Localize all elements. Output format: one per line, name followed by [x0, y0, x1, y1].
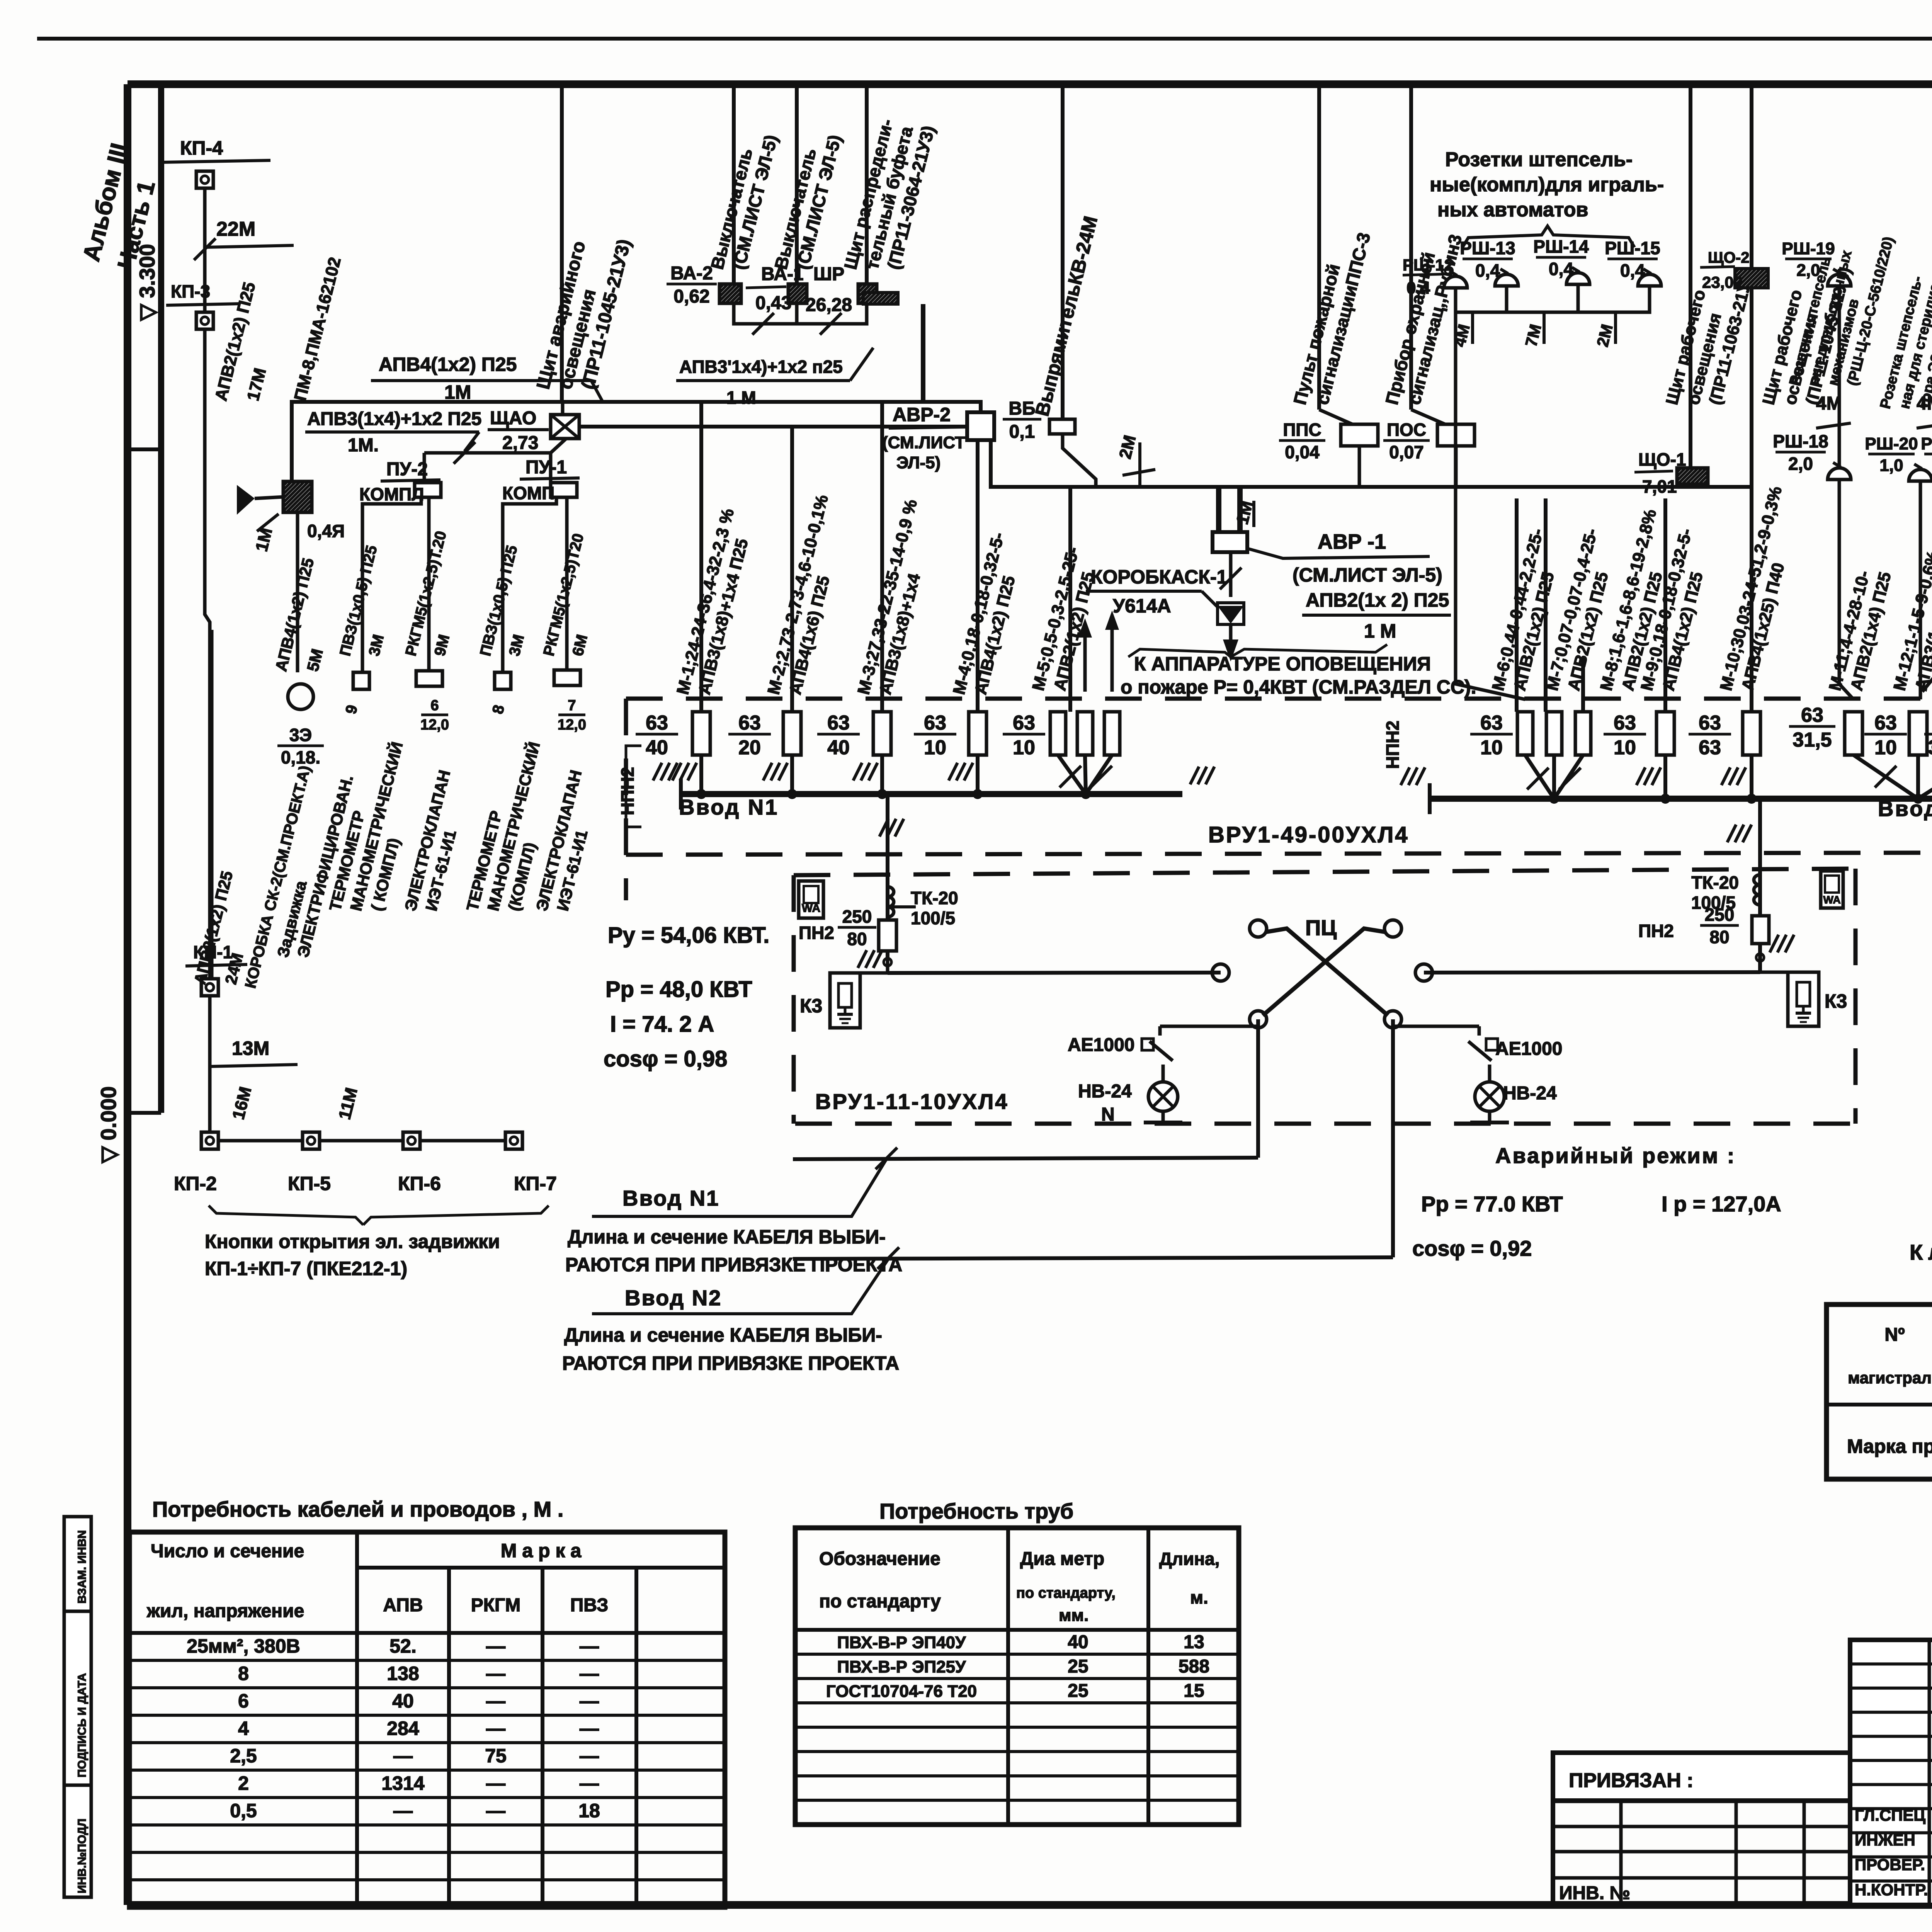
svg-text:КП-7: КП-7: [514, 1173, 557, 1194]
svg-text:25: 25: [1068, 1656, 1088, 1677]
svg-text:Аварийный режим :: Аварийный режим :: [1495, 1143, 1736, 1168]
svg-text:0,07: 0,07: [1389, 442, 1424, 462]
svg-text:РШ-19: РШ-19: [1782, 239, 1835, 258]
svg-text:63: 63: [738, 712, 761, 734]
svg-text:—: —: [580, 1718, 599, 1739]
svg-text:1314: 1314: [381, 1772, 424, 1794]
feeder M-8 riser: [1581, 657, 1585, 712]
svg-text:4: 4: [238, 1718, 249, 1739]
svg-text:18: 18: [578, 1800, 600, 1821]
svg-text:cosφ = 0,92: cosφ = 0,92: [1412, 1236, 1532, 1260]
wire valve drop: [296, 512, 299, 672]
svg-text:ВА-2: ВА-2: [670, 263, 713, 284]
svg-text:—: —: [580, 1772, 599, 1794]
bracket VA group: [734, 303, 797, 324]
svg-text:—: —: [486, 1772, 505, 1794]
svg-text:7,01: 7,01: [1642, 476, 1677, 497]
svg-text:по стандарту: по стандарту: [819, 1591, 941, 1612]
svg-text:Длина и сечение КАБЕЛЯ ВЫБИ-: Длина и сечение КАБЕЛЯ ВЫБИ-: [568, 1226, 886, 1248]
svg-text:52.: 52.: [389, 1635, 417, 1657]
svg-text:РАЮТСЯ ПРИ ПРИВЯЗКЕ ПРОЕКТА: РАЮТСЯ ПРИ ПРИВЯЗКЕ ПРОЕКТА: [562, 1352, 899, 1374]
svg-text:15: 15: [1184, 1680, 1204, 1701]
svg-text:ПВХ-В-Р ЭП40У: ПВХ-В-Р ЭП40У: [837, 1633, 966, 1652]
svg-text:НПН2: НПН2: [1383, 721, 1403, 769]
svg-text:I р = 127,0А: I р = 127,0А: [1662, 1192, 1781, 1216]
svg-text:РШ-12: РШ-12: [1403, 256, 1453, 274]
svg-text:8: 8: [238, 1663, 249, 1684]
svg-text:0,62: 0,62: [673, 286, 709, 307]
feeder line 1: [793, 1158, 1258, 1159]
svg-text:К3: К3: [1825, 990, 1847, 1012]
wire KP row: [210, 1149, 514, 1150]
svg-text:31,5: 31,5: [1928, 736, 1932, 759]
tick 4M a: [1816, 423, 1851, 428]
junction right: [1756, 954, 1764, 961]
CT TK-20 right: [1754, 875, 1760, 885]
svg-text:АЕ1000: АЕ1000: [1495, 1039, 1562, 1059]
feeder M-2 riser: [790, 427, 794, 712]
svg-text:40: 40: [827, 736, 850, 759]
fuse M-10 63/63: [1743, 712, 1760, 755]
svg-text:100/5: 100/5: [911, 908, 955, 928]
svg-text:РШ-20: РШ-20: [1865, 434, 1918, 453]
svg-text:0,1: 0,1: [1009, 422, 1035, 442]
svg-text:2: 2: [238, 1772, 249, 1794]
1M tick near SK-2: [257, 514, 279, 531]
svg-text:12,0: 12,0: [558, 717, 586, 733]
svg-text:РКГМ: РКГМ: [471, 1595, 521, 1616]
wire C from ShchAO to AVR-2: [579, 425, 967, 429]
svg-text:63: 63: [1013, 712, 1035, 734]
socket RSh-12: [1444, 276, 1467, 288]
2M tick: [1138, 442, 1141, 487]
svg-text:мм.: мм.: [1059, 1606, 1088, 1625]
bus VVOD N1: [681, 791, 1182, 797]
title block signature rows left: [1553, 1800, 1932, 1803]
svg-text:13: 13: [1184, 1632, 1204, 1652]
svg-text:40: 40: [392, 1690, 414, 1712]
svg-text:ВРУ1-11-10УХЛ4: ВРУ1-11-10УХЛ4: [815, 1089, 1009, 1114]
svg-text:—: —: [486, 1690, 505, 1712]
feeder M-4 riser: [976, 440, 980, 712]
feeder M-9 riser: [1663, 498, 1667, 712]
svg-text:РШ-16: РШ-16: [1921, 434, 1932, 453]
svg-text:ИНВ.№ПОДЛ: ИНВ.№ПОДЛ: [76, 1818, 88, 1893]
left strip boxes: [64, 1517, 91, 1611]
box VB: [1049, 419, 1075, 434]
svg-text:1 М: 1 М: [726, 388, 756, 408]
svg-text:ПН2: ПН2: [799, 923, 834, 943]
svg-text:25мм², 380В: 25мм², 380В: [187, 1635, 300, 1657]
svg-text:АПВ3'1х4)+1х2 п25: АПВ3'1х4)+1х2 п25: [679, 357, 843, 377]
svg-text:6: 6: [238, 1690, 249, 1712]
KZ box right: [1788, 972, 1819, 1026]
svg-text:ных автоматов: ных автоматов: [1437, 199, 1588, 221]
feeder M-5 riser: [1068, 487, 1072, 712]
svg-text:63: 63: [827, 712, 850, 734]
svg-text:Марка провода: Марка провода: [1847, 1435, 1932, 1457]
svg-text:ПОДПИСЬ И ДАТА: ПОДПИСЬ И ДАТА: [76, 1673, 88, 1777]
svg-text:Розетки штепсель-: Розетки штепсель-: [1445, 148, 1633, 171]
riser rectifier: [1061, 86, 1065, 419]
svg-text:31,5: 31,5: [1793, 729, 1832, 751]
svg-text:Рр = 77.0 КВТ: Рр = 77.0 КВТ: [1421, 1192, 1563, 1216]
svg-text:ЩО-2: ЩО-2: [1708, 249, 1749, 266]
wire KP-1 to KP-2: [208, 996, 212, 1132]
svg-text:Диа метр: Диа метр: [1020, 1549, 1104, 1569]
fuse M-11 63/31.5: [1845, 712, 1862, 755]
key table grid: [1827, 1304, 1932, 1479]
socket RSh-19: [1828, 274, 1851, 286]
svg-text:588: 588: [1179, 1656, 1209, 1677]
svg-text:РШ-13: РШ-13: [1460, 238, 1515, 258]
svg-text:250: 250: [1705, 905, 1735, 925]
svg-text:63: 63: [924, 712, 946, 734]
breaker AE1000 left: [1158, 1026, 1162, 1036]
svg-text:—: —: [393, 1745, 413, 1767]
riser light panel 1: [1689, 86, 1692, 468]
feeder line 2: [793, 1257, 1393, 1259]
svg-text:о пожаре Р= 0,4КВТ (СМ.РАЗДЕЛ: о пожаре Р= 0,4КВТ (СМ.РАЗДЕЛ СС).: [1121, 676, 1476, 698]
svg-text:Потребность кабелей и проводо: Потребность кабелей и проводов , М .: [152, 1497, 563, 1521]
svg-text:250: 250: [842, 906, 872, 927]
length 22M: [205, 245, 294, 247]
feeder M-7 riser: [1544, 498, 1548, 712]
AVR-1 feed drop: [1216, 487, 1221, 532]
svg-text:К АППАРАТУРЕ ОПОВЕЩЕНИЯ: К АППАРАТУРЕ ОПОВЕЩЕНИЯ: [1134, 653, 1431, 675]
svg-text:ПУ-1: ПУ-1: [526, 457, 567, 478]
svg-text:РШ-18: РШ-18: [1773, 431, 1828, 451]
meter box WA right: [1821, 871, 1843, 908]
svg-text:138: 138: [387, 1663, 419, 1684]
svg-text:3Э: 3Э: [289, 725, 312, 745]
svg-text:АЕ1000: АЕ1000: [1068, 1035, 1134, 1055]
svg-text:ные(компл)для играль-: ные(компл)для играль-: [1430, 173, 1664, 196]
wire A main feed to AVR-2: [292, 402, 981, 488]
feeder M-1 riser: [699, 402, 703, 712]
svg-text:10: 10: [1480, 736, 1503, 759]
svg-text:N: N: [1101, 1104, 1115, 1125]
svg-text:КОРОБКАСК-1: КОРОБКАСК-1: [1091, 566, 1227, 588]
breaker AE1000 right: [1478, 1026, 1481, 1036]
svg-text:ЩАО: ЩАО: [490, 408, 536, 429]
svg-text:НВ-24: НВ-24: [1503, 1083, 1557, 1104]
lamp NV-24 right: [1475, 1082, 1504, 1111]
svg-text:жил, напряжение: жил, напряжение: [146, 1601, 304, 1621]
valve motor circle: [288, 684, 313, 709]
button KP-3: [196, 312, 213, 329]
klapan box2: [554, 670, 580, 685]
wire to PC left: [888, 973, 1221, 973]
button KP-5: [303, 1132, 320, 1149]
svg-text:63: 63: [1699, 736, 1721, 759]
svg-text:ВБ: ВБ: [1009, 398, 1035, 419]
svg-text:КП-6: КП-6: [398, 1173, 441, 1194]
svg-text:КП-1÷КП-7 (ПКЕ212-1): КП-1÷КП-7 (ПКЕ212-1): [205, 1258, 407, 1279]
svg-text:63: 63: [1874, 712, 1897, 734]
svg-text:АВР-2: АВР-2: [893, 404, 951, 425]
svg-text:ИНЖЕН: ИНЖЕН: [1855, 1831, 1915, 1849]
svg-text:63: 63: [1480, 712, 1503, 734]
bus VVOD N2: [1430, 796, 1932, 802]
svg-text:10: 10: [1874, 736, 1897, 759]
svg-text:(СМ.ЛИСТ ЭЛ-5): (СМ.ЛИСТ ЭЛ-5): [1293, 564, 1442, 586]
tick 4M b: [1917, 423, 1932, 428]
svg-text:Потребность труб: Потребность труб: [879, 1499, 1073, 1523]
svg-text:63: 63: [1614, 712, 1636, 734]
svg-text:80: 80: [1709, 927, 1729, 947]
table pipes grid: [795, 1528, 1239, 1825]
riser RSh-19/18: [1839, 299, 1854, 699]
box AVR-1: [1213, 532, 1247, 552]
svg-text:ВРУ1-49-00УХЛ4: ВРУ1-49-00УХЛ4: [1208, 822, 1409, 847]
svg-text:АПВ2(1х 2) П25: АПВ2(1х 2) П25: [1306, 589, 1449, 611]
svg-text:—: —: [486, 1663, 505, 1684]
svg-text:WA: WA: [802, 902, 820, 915]
svg-text:2,5: 2,5: [230, 1745, 257, 1767]
title block tall grid: [1850, 1640, 1932, 1905]
svg-text:м.: м.: [1190, 1587, 1208, 1607]
fuse M-9 63/10: [1656, 712, 1674, 755]
wire KP-4 to KP-3: [203, 188, 207, 312]
riser ShR: [865, 86, 869, 284]
svg-text:Ввод N2: Ввод N2: [1878, 796, 1932, 821]
svg-text:0,4: 0,4: [1475, 260, 1500, 281]
svg-text:АПВ4(1х2) П25: АПВ4(1х2) П25: [379, 354, 517, 375]
right measuring column: [1758, 799, 1762, 972]
svg-text:2,73: 2,73: [502, 433, 538, 453]
svg-text:Рр = 48,0 КВТ: Рр = 48,0 КВТ: [605, 977, 752, 1002]
lamp NV-24 left: [1148, 1082, 1178, 1111]
svg-text:26,28: 26,28: [806, 295, 852, 315]
svg-text:ПУ-2: ПУ-2: [386, 459, 428, 480]
fuse M-5 group 63/10: [1050, 712, 1066, 755]
svg-text:Кнопки открытия эл. задвижки: Кнопки открытия эл. задвижки: [205, 1231, 500, 1252]
button KP-1: [201, 979, 218, 996]
svg-text:РШ-14: РШ-14: [1533, 236, 1589, 257]
svg-text:75: 75: [485, 1745, 507, 1767]
svg-text:У614А: У614А: [1113, 595, 1171, 617]
svg-text:К3: К3: [800, 995, 822, 1017]
svg-text:1М: 1М: [444, 381, 471, 403]
svg-text:КП-2: КП-2: [174, 1173, 217, 1194]
svg-text:0,4Я: 0,4Я: [307, 521, 345, 541]
box PU-2: [415, 483, 441, 497]
PC bottom wires: [1160, 1025, 1258, 1028]
VRU1-11 enclosure dashed: [794, 869, 1855, 875]
thermo sq2: [495, 672, 511, 689]
svg-text:20: 20: [738, 736, 761, 759]
svg-text:Обозначение: Обозначение: [819, 1549, 940, 1569]
svg-text:Nº: Nº: [1884, 1325, 1905, 1345]
junction left: [884, 958, 891, 966]
riser light panel 2 / M-10: [1750, 86, 1753, 712]
svg-text:22М: 22М: [216, 218, 255, 240]
wire PC to right column: [1424, 972, 1760, 973]
svg-text:Длина и сечение КАБЕЛЯ ВЫБИ-: Длина и сечение КАБЕЛЯ ВЫБИ-: [564, 1324, 882, 1346]
svg-text:0,18.: 0,18.: [281, 747, 320, 767]
svg-text:ПРОВЕР.: ПРОВЕР.: [1855, 1855, 1925, 1874]
svg-text:Число и сечение: Число и сечение: [151, 1541, 304, 1561]
svg-text:ТК-20: ТК-20: [1691, 872, 1739, 893]
svg-text:6: 6: [430, 697, 439, 714]
svg-text:ПН2: ПН2: [1638, 921, 1674, 941]
svg-text:РШ-15: РШ-15: [1605, 238, 1660, 258]
svg-text:10: 10: [1013, 736, 1035, 759]
socket RSh-13: [1495, 274, 1518, 286]
riser fire alarm console: [1317, 86, 1321, 410]
svg-text:ППС: ППС: [1283, 420, 1321, 440]
sheet outer border top: [37, 37, 1932, 41]
wire PU-2 distribution: [424, 451, 551, 455]
svg-text:Ввод N1: Ввод N1: [679, 795, 779, 819]
breaker VA-2: [719, 284, 741, 303]
svg-text:ЩО-1: ЩО-1: [1638, 449, 1686, 469]
thermometer drops PU-2: [362, 497, 421, 672]
svg-text:cosφ = 0,98: cosφ = 0,98: [604, 1046, 727, 1071]
thermometer drops PU-1: [503, 497, 556, 672]
svg-text:0,43: 0,43: [755, 293, 791, 313]
M-5 group converge: [1058, 755, 1086, 794]
svg-text:ШР: ШР: [813, 264, 844, 284]
ground at bus N1 right: [1190, 767, 1199, 784]
meter box WA left: [799, 881, 823, 918]
socket feed down: [1456, 312, 1525, 699]
svg-text:ГОСТ10704-76 Т20: ГОСТ10704-76 Т20: [826, 1682, 977, 1701]
wire ShchRB down: [921, 304, 925, 402]
svg-text:по стандарту,: по стандарту,: [1016, 1585, 1116, 1601]
riser VA-1: [795, 86, 799, 284]
svg-text:40: 40: [646, 736, 668, 759]
svg-text:Н.КОНТР.: Н.КОНТР.: [1855, 1881, 1928, 1899]
box PPS: [1341, 424, 1378, 446]
svg-text:12,0: 12,0: [420, 717, 449, 733]
box PU-1: [551, 483, 577, 497]
KZ box left: [830, 973, 860, 1028]
socket RSh-18: [1828, 468, 1851, 480]
svg-text:1 М: 1 М: [1364, 620, 1396, 642]
svg-text:НПН2: НПН2: [617, 767, 638, 815]
fuse M-3 63/40: [873, 712, 891, 755]
PC crossover: [1250, 920, 1267, 937]
sockets bus wire: [1456, 299, 1650, 312]
1M tick AVR-1: [1252, 501, 1255, 527]
ticks 4M 7M 2M: [1471, 312, 1474, 344]
button KP-7: [505, 1132, 522, 1149]
svg-text:ПЦ: ПЦ: [1305, 915, 1337, 940]
box SK-2 0.4A: [283, 481, 312, 512]
thermo sq1: [353, 672, 369, 689]
svg-text:КП-3: КП-3: [171, 281, 210, 301]
svg-text:КП-4: КП-4: [180, 137, 223, 159]
svg-text:—: —: [486, 1800, 505, 1821]
svg-text:НВ-24: НВ-24: [1078, 1081, 1132, 1102]
svg-text:(СМ.ЛИСТ: (СМ.ЛИСТ: [882, 433, 965, 452]
svg-text:Длина,: Длина,: [1159, 1549, 1219, 1569]
box ShchO-1: [1677, 468, 1708, 484]
svg-text:40: 40: [1068, 1632, 1088, 1652]
svg-text:АПВ3(1х4)+1х2 П25: АПВ3(1х4)+1х2 П25: [307, 409, 481, 429]
AVR-1 down wire: [1229, 552, 1233, 597]
fuse M-12 63/10: [1909, 712, 1927, 755]
button KP-2: [201, 1132, 218, 1149]
fuse M-678 group 63/10: [1517, 712, 1533, 755]
button KP-4: [196, 171, 213, 188]
M-5 spare arrows: [1083, 630, 1087, 692]
VB to wire B diagonal: [1063, 434, 1096, 487]
svg-text:—: —: [580, 1663, 599, 1684]
svg-text:0,4: 0,4: [1549, 259, 1573, 279]
svg-text:ИНВ. №: ИНВ. №: [1559, 1883, 1630, 1903]
socket RSh-14: [1566, 273, 1590, 284]
svg-text:Ввод N2: Ввод N2: [625, 1286, 722, 1310]
box ShchO-2: [1735, 269, 1768, 288]
svg-text:1,0: 1,0: [1879, 456, 1903, 475]
fuse M-2 63/20: [783, 712, 801, 755]
svg-text:М а р к а: М а р к а: [501, 1540, 582, 1561]
ShchAO crossed box: [551, 415, 579, 439]
svg-text:магистрали: магистрали: [1848, 1369, 1932, 1387]
svg-text:1М.: 1М.: [348, 435, 379, 456]
svg-text:ТК-20: ТК-20: [911, 888, 958, 908]
svg-text:2,0: 2,0: [1788, 454, 1813, 474]
M-3 drop to VRU1-11: [886, 794, 889, 887]
svg-text:ПВХ-В-Р ЭП25У: ПВХ-В-Р ЭП25У: [837, 1657, 966, 1676]
table cable demand grid: [129, 1532, 725, 1907]
drawing frame: [128, 80, 1932, 88]
riser VA-2: [732, 86, 736, 284]
wire KP-3 down to KP-1: [205, 329, 210, 979]
svg-text:7: 7: [568, 697, 576, 714]
M-11..13 converge: [1854, 755, 1918, 799]
svg-text:63: 63: [646, 712, 668, 734]
feeder M-3 riser: [880, 402, 884, 712]
socket RSh-15: [1638, 274, 1661, 286]
svg-text:—: —: [580, 1690, 599, 1712]
svg-text:25: 25: [1068, 1680, 1088, 1701]
svg-text:АВР -1: АВР -1: [1318, 530, 1386, 553]
svg-text:10: 10: [924, 736, 946, 759]
svg-text:—: —: [580, 1635, 599, 1657]
svg-text:13М: 13М: [232, 1037, 269, 1059]
riser emergency light panel: [560, 86, 564, 402]
socket RSh-20: [1909, 469, 1932, 481]
arrow down to annunciation: [1229, 624, 1233, 649]
svg-text:WA: WA: [1823, 894, 1840, 906]
svg-text:Ключ к надписям на ма: Ключ к надписям на магистралях: [1910, 1240, 1932, 1264]
connector triangle SK-2: [237, 485, 255, 515]
svg-text:0,5: 0,5: [230, 1800, 257, 1821]
svg-text:ЭЛ-5): ЭЛ-5): [896, 453, 940, 472]
box AVR-2: [967, 412, 994, 440]
svg-text:КОМПЛ: КОМПЛ: [359, 484, 424, 504]
svg-text:63: 63: [1699, 712, 1721, 734]
svg-text:ПВЗ: ПВЗ: [570, 1595, 609, 1616]
svg-text:—: —: [393, 1800, 413, 1821]
wire B distribution below AVR-2: [991, 440, 1752, 487]
riser security device: [1409, 86, 1413, 410]
svg-text:—: —: [580, 1745, 599, 1767]
svg-text:▽ 0.000: ▽ 0.000: [96, 1086, 121, 1164]
svg-text:80: 80: [847, 929, 867, 949]
svg-text:284: 284: [387, 1718, 419, 1739]
button KP-6: [403, 1132, 420, 1149]
svg-text:23,02: 23,02: [1702, 273, 1743, 291]
svg-text:КП-5: КП-5: [288, 1173, 331, 1194]
svg-text:63: 63: [1801, 704, 1823, 726]
length 13M: [210, 1065, 298, 1066]
VRU1-49 enclosure dashed: [626, 697, 1932, 701]
